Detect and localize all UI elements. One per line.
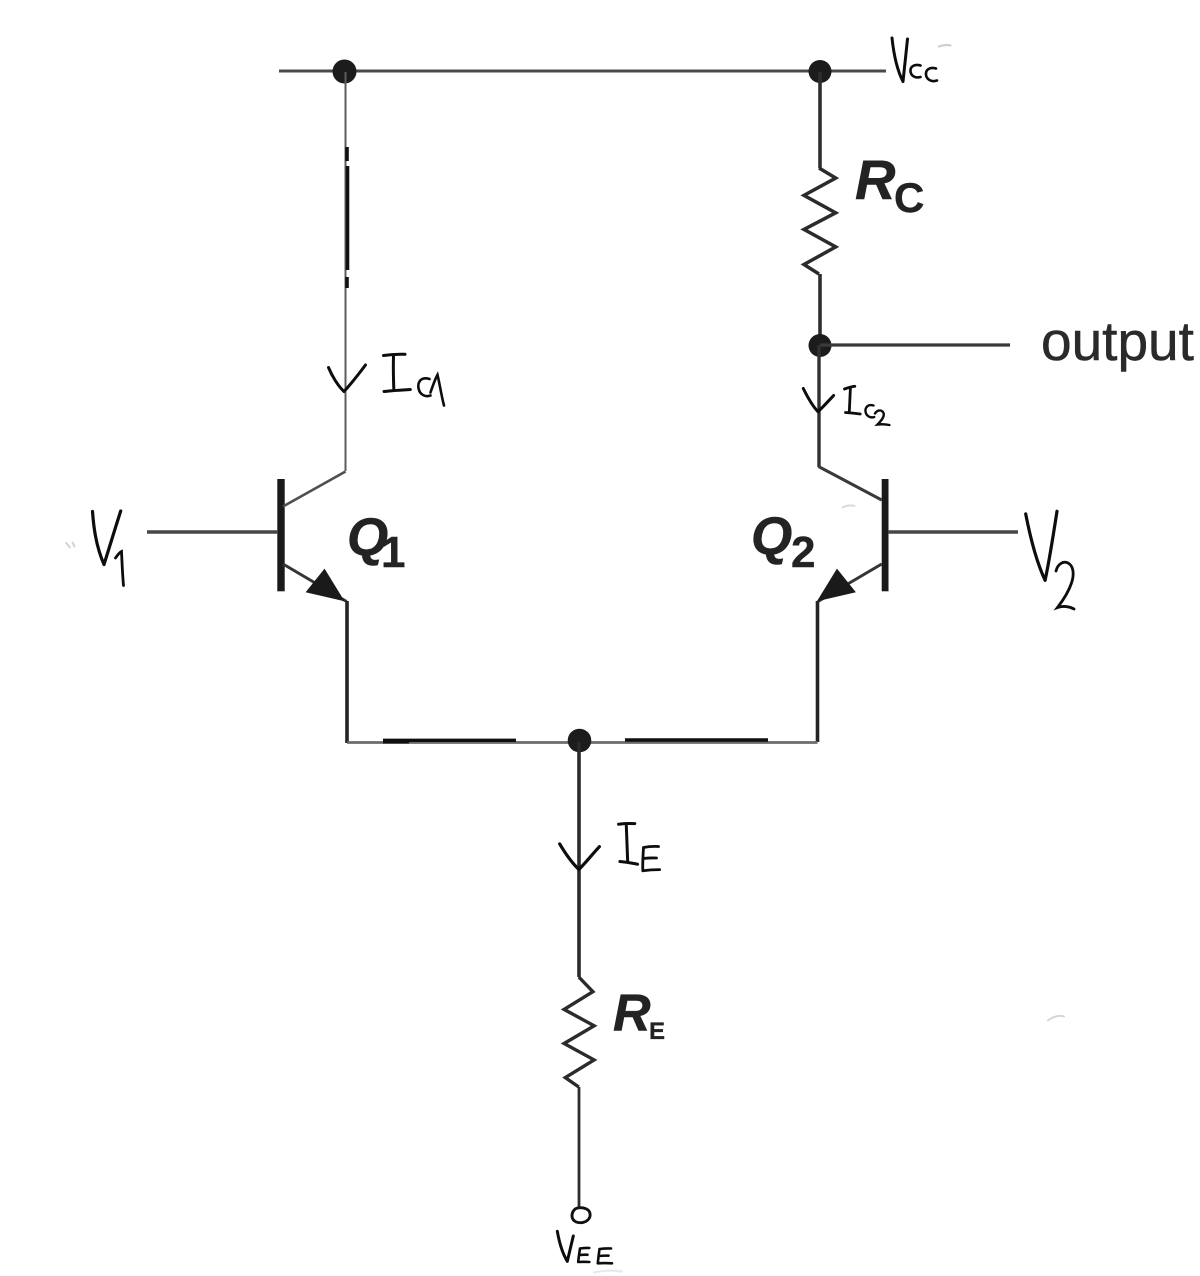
- label V2 (handwritten): [1026, 511, 1057, 580]
- label IC2 (handwritten I): [845, 386, 861, 414]
- wire output horizontal: [820, 343, 1010, 346]
- label V1 (handwritten): [93, 511, 121, 565]
- wire emitter bus overdraw left thick start: [383, 740, 409, 743]
- transistor Q1 emitter arrowhead: [307, 570, 344, 601]
- stray mark right of Q2 collector: [843, 506, 855, 508]
- stray mark right middle: [1048, 1016, 1064, 1021]
- svg-text:R: R: [613, 985, 651, 1043]
- wire Q1 emitter diagonal: [283, 564, 347, 602]
- label IC1 subscript c: [418, 378, 430, 396]
- stray mark left of V1: [66, 543, 75, 548]
- label V1 subscript 1: [116, 552, 124, 586]
- svg-text:Q: Q: [751, 507, 792, 566]
- current arrow IC1 (handwritten): [329, 365, 366, 392]
- node junction dot left on VCC rail: [333, 60, 357, 84]
- node junction dot right on VCC rail: [809, 60, 832, 83]
- wire emitter bus (gray base): [347, 741, 818, 744]
- label VEE (handwritten): [557, 1231, 573, 1261]
- label VEE subscript E2: [598, 1248, 612, 1263]
- label V2 subscript 2: [1056, 562, 1074, 609]
- svg-text:1: 1: [381, 528, 405, 577]
- transistor Q1 base bar: [277, 479, 284, 591]
- stray mark near VCC label: [939, 45, 951, 47]
- stray smudge bottom: [594, 1271, 622, 1273]
- wire Q1 emitter vertical: [345, 601, 349, 743]
- svg-text:output: output: [1041, 310, 1194, 372]
- wire left collector overdraw segment 2: [346, 166, 350, 270]
- wire Q2 collector vertical below output node: [817, 345, 820, 467]
- svg-text:C: C: [894, 174, 924, 221]
- svg-text:2: 2: [791, 528, 815, 577]
- wire emitter bus overdraw left: [383, 739, 516, 742]
- current arrow IC2 (handwritten): [803, 389, 833, 412]
- svg-text:R: R: [855, 148, 896, 211]
- wire Q1 collector diagonal: [283, 472, 346, 507]
- wire left collector overdraw segment 1: [345, 147, 349, 161]
- wire RE bottom lead: [578, 1087, 581, 1207]
- resistor RE zigzag: [564, 977, 594, 1087]
- wire Q2 collector diagonal: [819, 467, 882, 501]
- label IC2 subscript 2: [875, 410, 889, 425]
- wire Q2 base lead from V2: [888, 530, 1018, 534]
- terminal VEE open circle: [572, 1208, 590, 1223]
- wire Q2 emitter diagonal: [818, 564, 882, 602]
- label IC2 subscript c: [865, 405, 874, 417]
- wire tail current vertical to RE: [577, 742, 581, 977]
- resistor RC zigzag: [804, 168, 836, 274]
- label VCC (handwritten): [892, 38, 908, 82]
- label VCC subscript c2: [926, 68, 937, 81]
- label VCC subscript c1: [910, 65, 920, 78]
- label IE (handwritten I): [619, 823, 638, 864]
- label IC1 subscript 1: [431, 375, 445, 406]
- label IE subscript E: [643, 846, 660, 870]
- wire RC bottom lead to output node: [818, 274, 822, 345]
- transistor Q2 emitter arrowhead: [818, 570, 855, 601]
- wire RC top lead from VCC dot: [818, 72, 822, 168]
- node emitter junction dot: [568, 729, 592, 753]
- wire Q1 base lead from V1: [147, 530, 277, 534]
- label VEE subscript E1: [578, 1248, 589, 1262]
- current arrow IE (handwritten): [560, 844, 600, 870]
- label IC1 (handwritten I): [384, 354, 411, 391]
- wire emitter bus overdraw right: [625, 738, 768, 741]
- wire VCC rail (top horizontal): [279, 70, 886, 73]
- svg-text:E: E: [649, 1018, 665, 1045]
- node output junction dot: [809, 334, 832, 357]
- wire left collector overdraw segment 3: [345, 277, 349, 288]
- wire Q2 emitter vertical: [816, 601, 820, 742]
- wire left collector vertical (thin gray): [345, 72, 347, 471]
- transistor Q2 base bar: [882, 479, 889, 591]
